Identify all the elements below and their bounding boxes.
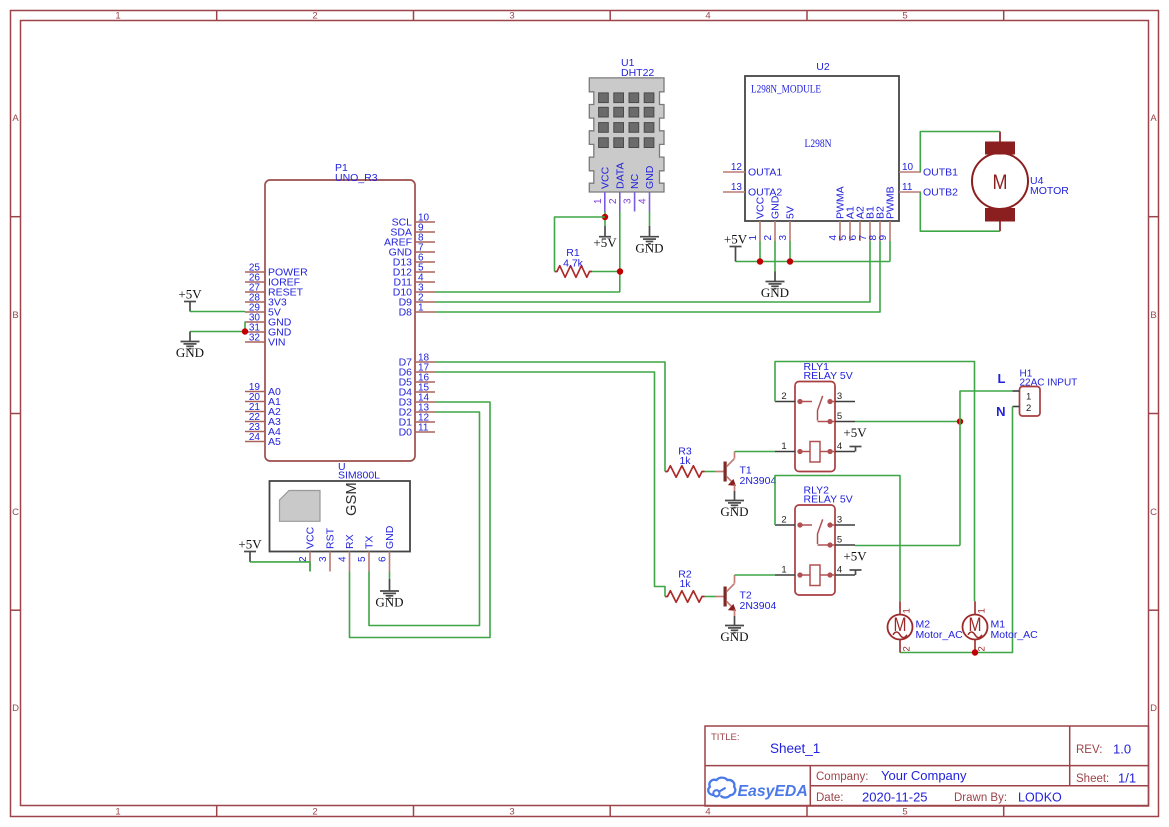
pin 5 of RLY2 xyxy=(835,535,855,546)
pin 2 of H1 xyxy=(1013,406,1020,408)
wire U2 5V down xyxy=(789,241,791,262)
transistor T1 2N3904 xyxy=(716,452,777,492)
power flag +5V at RLY1 pin 4 xyxy=(843,425,867,452)
svg-text:A: A xyxy=(12,113,19,124)
wire R1 to DATA node xyxy=(592,271,620,273)
svg-text:2: 2 xyxy=(902,646,913,651)
pin 13 D2 of P1 xyxy=(399,403,435,419)
wire +5V to GSM VCC xyxy=(250,562,310,572)
pin 11 D0 of P1 xyxy=(399,423,435,439)
pin 6 A2 of U2 xyxy=(848,206,867,241)
svg-text:3: 3 xyxy=(837,391,842,402)
svg-text:LODKO: LODKO xyxy=(1018,791,1062,805)
wire U2 VCC down xyxy=(759,241,761,262)
wire R2 to T2 base xyxy=(705,596,716,598)
pin 2 of RLY1 xyxy=(775,391,795,402)
svg-text:1: 1 xyxy=(593,198,604,204)
ground at T1 emitter xyxy=(720,491,748,519)
svg-text:1: 1 xyxy=(115,807,120,818)
svg-text:12: 12 xyxy=(731,162,743,173)
wire U2 GND down xyxy=(774,241,776,272)
svg-text:3: 3 xyxy=(509,11,514,22)
svg-text:GND: GND xyxy=(770,195,782,219)
node R1/DATA junction xyxy=(617,268,623,274)
svg-text:Sheet:: Sheet: xyxy=(1076,773,1109,785)
module U2 L298N_MODULE xyxy=(745,61,899,221)
pin 6 D13 of P1 xyxy=(393,253,435,269)
wire T1 collector to RLY1 pin1 xyxy=(735,451,776,453)
pin 1 VCC of U2 xyxy=(748,196,767,241)
svg-text:5: 5 xyxy=(902,807,907,818)
wire RLY2 pin2 to M2 xyxy=(775,476,900,602)
power flag +5V at U2 xyxy=(724,232,748,262)
svg-text:GND: GND xyxy=(635,240,663,255)
wire +5V to R1 xyxy=(555,217,606,272)
svg-text:1: 1 xyxy=(902,608,913,613)
pin 28 3V3 of P1 xyxy=(245,293,287,309)
pin 14 D3 of P1 xyxy=(399,393,435,409)
svg-text:OUTB2: OUTB2 xyxy=(923,187,958,199)
relay RLY2 RELAY 5V xyxy=(795,485,853,596)
svg-text:VCC: VCC xyxy=(305,526,317,549)
pin 4 D11 of P1 xyxy=(394,273,435,289)
pin 10 SCL of P1 xyxy=(392,213,435,229)
svg-text:Company:: Company: xyxy=(816,771,868,783)
pin 3 of RLY1 xyxy=(835,391,855,402)
wire P1 D8 to U2 B2 xyxy=(435,241,880,312)
resistor R1 4.7k xyxy=(555,247,593,277)
svg-text:22AC INPUT: 22AC INPUT xyxy=(1020,377,1078,388)
svg-text:2: 2 xyxy=(1026,403,1031,414)
svg-text:4: 4 xyxy=(705,11,710,22)
svg-text:2: 2 xyxy=(312,11,317,22)
pin 13 OUTA2 of U2 xyxy=(723,182,782,199)
svg-text:D: D xyxy=(1150,703,1157,714)
svg-text:2: 2 xyxy=(608,198,619,204)
svg-text:1: 1 xyxy=(977,608,988,613)
svg-text:UNO_R3: UNO_R3 xyxy=(335,172,378,184)
svg-text:3: 3 xyxy=(509,807,514,818)
pin 1 of RLY1 xyxy=(775,441,795,452)
svg-text:OUTA1: OUTA1 xyxy=(748,167,782,179)
wire R3 to T1 base xyxy=(705,471,716,473)
svg-text:+5V: +5V xyxy=(593,235,617,250)
svg-text:L298N_MODULE: L298N_MODULE xyxy=(751,84,821,96)
svg-text:1.0: 1.0 xyxy=(1113,742,1131,757)
svg-text:1: 1 xyxy=(1026,392,1031,403)
wire P1 D3 to GSM RX xyxy=(350,402,491,638)
svg-text:L298N: L298N xyxy=(805,138,833,150)
wire +5V rail under U2 xyxy=(736,261,891,263)
svg-text:2: 2 xyxy=(763,235,774,241)
svg-text:Your Company: Your Company xyxy=(881,768,967,783)
ground symbol U1 xyxy=(640,237,659,244)
svg-text:MOTOR: MOTOR xyxy=(1030,185,1069,197)
pin 9 PWMB of U2 xyxy=(878,186,897,241)
svg-text:1: 1 xyxy=(115,11,120,22)
svg-text:B: B xyxy=(1150,310,1156,321)
ground symbol P1 xyxy=(181,342,200,349)
svg-text:10: 10 xyxy=(902,162,914,173)
svg-text:VCC: VCC xyxy=(599,166,611,189)
pin 3 5V of U2 xyxy=(778,206,797,241)
node U1 VCC junction xyxy=(602,214,608,220)
svg-text:6: 6 xyxy=(378,556,389,562)
node U2 5V junction xyxy=(787,258,793,264)
svg-text:5: 5 xyxy=(837,535,842,546)
node U2 VCC junction xyxy=(757,258,763,264)
pin 9 SDA of P1 xyxy=(390,223,435,239)
svg-text:SIM800L: SIM800L xyxy=(338,470,380,482)
power flag +5V at U1 xyxy=(593,226,617,250)
wire P1 GND30 to GND31 xyxy=(244,322,246,332)
svg-text:L: L xyxy=(998,371,1006,386)
svg-text:4.7k: 4.7k xyxy=(563,258,584,270)
svg-text:11: 11 xyxy=(902,182,913,193)
pin 18 D7 of P1 xyxy=(399,353,435,369)
pin 5 TX of U SIM800L xyxy=(357,536,376,572)
svg-text:1k: 1k xyxy=(679,455,691,467)
component P1 UNO_R3 xyxy=(265,162,415,461)
pin 1 D8 of P1 xyxy=(399,303,435,319)
svg-text:GND: GND xyxy=(720,504,748,519)
svg-text:Date:: Date: xyxy=(816,792,844,804)
pin 2 VCC of U SIM800L xyxy=(298,526,317,571)
power flag +5V at GSM xyxy=(238,537,262,562)
svg-text:3: 3 xyxy=(778,235,789,241)
pin 25 POWER of P1 xyxy=(245,263,308,279)
pin 2 D9 of P1 xyxy=(399,293,435,309)
svg-text:GND: GND xyxy=(761,285,789,300)
svg-text:VIN: VIN xyxy=(268,337,286,349)
pin 4 PWMA of U2 xyxy=(828,186,847,241)
pin 5 A1 of U2 xyxy=(838,206,857,241)
svg-text:5: 5 xyxy=(837,411,842,422)
pin 4 of RLY2 xyxy=(835,565,855,576)
wire T2 collector to RLY2 pin1 xyxy=(735,574,776,576)
svg-text:VCC: VCC xyxy=(755,196,767,219)
pin 27 RESET of P1 xyxy=(245,283,304,299)
pin 12 OUTA1 of U2 xyxy=(723,162,782,179)
svg-text:24: 24 xyxy=(249,432,261,443)
node M1 pin2 junction xyxy=(972,649,978,655)
wire H1 L to relays xyxy=(960,391,1013,546)
wire RLY2 pin5 to L node xyxy=(855,545,960,547)
connector H1 22AC INPUT xyxy=(1020,369,1078,417)
sensor U1 DHT22 xyxy=(589,57,664,192)
pin 26 IOREF of P1 xyxy=(245,273,300,289)
wire P1 D10 to DATA node xyxy=(435,291,620,293)
svg-text:A5: A5 xyxy=(268,436,281,448)
svg-text:+5V: +5V xyxy=(178,287,202,302)
relay RLY1 RELAY 5V xyxy=(795,361,853,472)
svg-text:U2: U2 xyxy=(816,61,830,73)
transistor T2 2N3904 xyxy=(716,575,777,616)
pin 5 of RLY1 xyxy=(835,411,855,422)
power flag +5V xyxy=(599,236,611,238)
svg-text:1: 1 xyxy=(781,441,786,452)
ground at T2 emitter xyxy=(720,616,748,644)
wire U2 OUTB2 to U4 xyxy=(920,192,1000,231)
wire U2 PWMB to +5V rail xyxy=(889,241,891,262)
svg-text:RELAY 5V: RELAY 5V xyxy=(804,494,853,506)
svg-text:4: 4 xyxy=(638,198,649,204)
svg-text:1k: 1k xyxy=(679,578,691,590)
svg-text:RELAY 5V: RELAY 5V xyxy=(804,370,853,382)
svg-text:3: 3 xyxy=(837,515,842,526)
wire +5V to P1 5V xyxy=(190,311,245,313)
svg-text:2: 2 xyxy=(781,515,786,526)
title block xyxy=(705,726,1149,806)
svg-text:2N3904: 2N3904 xyxy=(740,475,777,487)
power flag +5V at P1 pin 29 xyxy=(178,287,202,312)
svg-text:4: 4 xyxy=(705,807,710,818)
pin 2 GND of U2 xyxy=(763,195,782,241)
svg-text:5: 5 xyxy=(357,556,368,562)
svg-text:GND: GND xyxy=(384,525,396,549)
svg-text:11: 11 xyxy=(418,423,429,434)
ground symbol T1 xyxy=(725,501,744,508)
svg-text:1: 1 xyxy=(781,565,786,576)
pin 31 GND of P1 xyxy=(245,323,292,339)
svg-text:M: M xyxy=(993,171,1008,194)
svg-text:2N3904: 2N3904 xyxy=(740,600,777,612)
pin 29 5V of P1 xyxy=(245,303,281,319)
pin 23 A4 of P1 xyxy=(245,422,281,438)
wire P1 D7 to R3 xyxy=(435,362,665,472)
svg-text:4: 4 xyxy=(338,556,349,562)
svg-text:3: 3 xyxy=(318,556,329,562)
wire P1 D9 to U2 B1 xyxy=(435,241,870,302)
svg-text:GND: GND xyxy=(176,345,204,360)
pin 2 of RLY2 xyxy=(775,515,795,526)
pin 19 A0 of P1 xyxy=(245,382,281,398)
svg-text:4: 4 xyxy=(837,565,842,576)
svg-text:TX: TX xyxy=(364,536,376,549)
pin 20 A1 of P1 xyxy=(245,392,281,408)
svg-text:GND: GND xyxy=(720,629,748,644)
power flag +5V at RLY2 pin 4 xyxy=(843,549,867,576)
svg-text:32: 32 xyxy=(249,333,261,344)
wire H1 N to motors xyxy=(900,407,1013,653)
svg-text:4: 4 xyxy=(837,441,842,452)
svg-text:GSM: GSM xyxy=(344,482,360,516)
pin 24 A5 of P1 xyxy=(245,432,281,448)
svg-text:TITLE:: TITLE: xyxy=(711,732,740,743)
pin 6 GND of U SIM800L xyxy=(378,525,397,571)
pin 8 AREF of P1 xyxy=(384,233,435,249)
svg-text:+5V: +5V xyxy=(238,537,262,552)
svg-text:D0: D0 xyxy=(399,427,413,439)
svg-text:5: 5 xyxy=(902,11,907,22)
wire RLY1 pin2 to M1 xyxy=(775,362,975,602)
pin 2 DATA of U1 xyxy=(608,163,627,212)
ground symbol U2 xyxy=(766,282,785,289)
svg-text:D8: D8 xyxy=(399,307,413,319)
pin 11 OUTB2 of U2 xyxy=(899,182,958,199)
svg-text:D: D xyxy=(12,703,19,714)
motor M2 Motor_AC xyxy=(888,601,964,652)
pin 3 D10 of P1 xyxy=(393,283,435,299)
pin 4 RX of U SIM800L xyxy=(338,534,357,571)
pin 5 D12 of P1 xyxy=(393,263,435,279)
wire U1 DATA down to D10 row xyxy=(619,212,621,293)
svg-text:+5V: +5V xyxy=(843,549,867,564)
pin 15 D4 of P1 xyxy=(399,383,435,399)
ground at P1 xyxy=(176,332,204,361)
pin 7 B1 of U2 xyxy=(858,206,877,241)
svg-text:RX: RX xyxy=(344,534,356,549)
svg-text:5V: 5V xyxy=(785,206,797,219)
module U SIM800L (GSM) xyxy=(270,461,411,552)
svg-text:A: A xyxy=(1150,113,1157,124)
svg-text:C: C xyxy=(12,507,19,518)
pin 17 D6 of P1 xyxy=(399,363,435,379)
node P1 GND junction xyxy=(242,328,248,334)
svg-text:DHT22: DHT22 xyxy=(621,67,654,79)
svg-text:RST: RST xyxy=(325,527,337,549)
ground at GSM pin 6 xyxy=(375,572,403,610)
svg-text:2: 2 xyxy=(977,646,988,651)
svg-text:3: 3 xyxy=(623,198,634,204)
svg-text:+5V: +5V xyxy=(843,425,867,440)
power flag +5V xyxy=(730,246,742,248)
svg-text:1/1: 1/1 xyxy=(1118,771,1136,786)
svg-text:OUTB1: OUTB1 xyxy=(923,167,958,179)
pin 22 A3 of P1 xyxy=(245,412,281,428)
svg-text:N: N xyxy=(996,404,1005,419)
pin 4 of RLY1 xyxy=(835,441,855,452)
svg-text:Sheet_1: Sheet_1 xyxy=(770,741,820,756)
wire U1 VCC down xyxy=(604,212,606,227)
svg-text:2020-11-25: 2020-11-25 xyxy=(862,790,928,805)
pin 30 GND of P1 xyxy=(245,313,292,329)
svg-text:1: 1 xyxy=(418,303,424,314)
pin 1 VCC of U1 xyxy=(593,166,612,211)
pin 10 OUTB1 of U2 xyxy=(899,162,958,179)
svg-text:REV:: REV: xyxy=(1076,744,1102,756)
EasyEDA logo xyxy=(708,778,807,800)
svg-text:Drawn By:: Drawn By: xyxy=(954,792,1007,804)
svg-text:2: 2 xyxy=(781,391,786,402)
svg-text:NC: NC xyxy=(629,173,641,189)
wire U2 OUTB1 to U4 xyxy=(920,132,1000,173)
node L net junction xyxy=(957,418,963,424)
ground symbol T2 xyxy=(725,626,744,633)
svg-text:B: B xyxy=(12,310,18,321)
wire P1 GND to ground xyxy=(190,331,245,333)
pin 4 GND of U1 xyxy=(638,165,657,211)
svg-text:1: 1 xyxy=(748,235,759,241)
ground symbol GSM xyxy=(380,591,399,598)
svg-text:EasyEDA: EasyEDA xyxy=(738,783,808,800)
pin 1 of RLY2 xyxy=(775,565,795,576)
wire P1 D6 to R2 xyxy=(435,372,665,597)
svg-text:13: 13 xyxy=(731,182,743,193)
pin 16 D5 of P1 xyxy=(399,373,435,389)
pin 1 of H1 xyxy=(1013,390,1020,392)
svg-text:2: 2 xyxy=(298,556,309,562)
pin 3 RST of U SIM800L xyxy=(318,527,337,571)
svg-text:GND: GND xyxy=(644,165,656,189)
pin 3 of RLY2 xyxy=(835,515,855,526)
pin 8 B2 of U2 xyxy=(868,206,887,241)
svg-text:9: 9 xyxy=(878,235,889,241)
pin 7 GND of P1 xyxy=(389,243,435,259)
svg-text:GND: GND xyxy=(375,595,403,610)
svg-text:Motor_AC: Motor_AC xyxy=(991,629,1039,641)
svg-text:DATA: DATA xyxy=(614,163,626,189)
resistor R3 1k xyxy=(665,446,705,478)
wire RLY1 pin5 to L node xyxy=(855,421,960,423)
ground at U1 pin 4 xyxy=(635,212,663,256)
svg-text:PWMB: PWMB xyxy=(885,186,897,219)
svg-text:Motor_AC: Motor_AC xyxy=(916,629,964,641)
motor U4 MOTOR xyxy=(972,132,1069,232)
pin 3 NC of U1 xyxy=(623,173,642,211)
motor M1 Motor_AC xyxy=(963,601,1039,652)
pin 12 D1 of P1 xyxy=(399,413,435,429)
resistor R2 1k xyxy=(665,569,705,603)
svg-text:2: 2 xyxy=(312,807,317,818)
pin 21 A2 of P1 xyxy=(245,402,281,418)
pin 32 VIN of P1 xyxy=(245,333,286,349)
wire P1 D2 to GSM TX xyxy=(369,412,480,626)
svg-text:C: C xyxy=(1150,507,1157,518)
svg-text:+5V: +5V xyxy=(724,232,748,247)
ground at U2 pin 2 xyxy=(761,272,789,301)
